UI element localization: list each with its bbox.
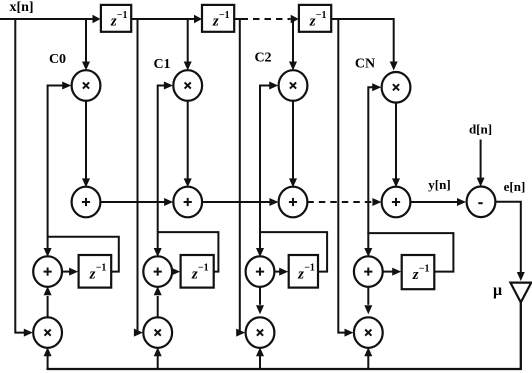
accumulator adder 2 (+) bbox=[246, 256, 275, 287]
multiplier bottom 1 (x) bbox=[143, 317, 172, 348]
svg-text:−1: −1 bbox=[117, 10, 128, 21]
wire y[n] adder N to subtractor bbox=[410, 198, 466, 206]
multiplier bottom 2 (x) bbox=[246, 317, 275, 348]
delay block z^-1 bottom N bbox=[402, 255, 435, 289]
svg-text:z: z bbox=[297, 266, 304, 282]
delay block z^-1 #2 bbox=[202, 5, 234, 32]
multiplier C1 (x) bbox=[173, 70, 202, 101]
amplifier mu (triangle) bbox=[510, 283, 531, 303]
wire mu output to bottom rail bbox=[47, 302, 521, 369]
wire delay3 output to multiplier CN bbox=[331, 19, 398, 71]
svg-text:−1: −1 bbox=[219, 10, 230, 21]
wire coefficient CN feed to multiplier bbox=[368, 83, 381, 233]
accumulator adder 0 (+) bbox=[33, 256, 62, 287]
svg-text:y[n]: y[n] bbox=[428, 177, 450, 192]
wire adder1 to adder2 bbox=[202, 198, 278, 206]
wire delayed signal drop to bottom multiplier 2 bbox=[236, 19, 245, 337]
adder N (+) bbox=[382, 187, 411, 218]
svg-text:−1: −1 bbox=[198, 263, 209, 274]
wire bottom multiplier 1 up into accumulator bbox=[154, 286, 162, 318]
svg-text:−1: −1 bbox=[316, 10, 327, 21]
wire feedback loop delay N to accumulator bbox=[364, 233, 453, 272]
svg-text:z: z bbox=[309, 13, 316, 29]
wire bottom multiplier 0 up into accumulator bbox=[44, 286, 52, 318]
svg-text:e[n]: e[n] bbox=[504, 179, 526, 194]
wire coefficient C1 feed to multiplier bbox=[158, 82, 173, 233]
svg-text:μ: μ bbox=[493, 282, 502, 299]
delay block z^-1 bottom 0 bbox=[79, 255, 112, 288]
adder 0 (+) bbox=[72, 187, 101, 218]
wire e[n] subtractor to mu amplifier bbox=[495, 202, 524, 281]
adder 1 (+) bbox=[173, 187, 202, 218]
wire accumulator 0 to delay bbox=[62, 268, 78, 276]
svg-text:CN: CN bbox=[355, 57, 375, 72]
wire product 2 to adder bbox=[289, 100, 297, 188]
accumulator adder 1 (+) bbox=[143, 256, 172, 287]
multiplier C0 (x) bbox=[72, 70, 101, 101]
wire x[n] input to first delay bbox=[0, 15, 101, 24]
wire feedback loop delay 2 to accumulator bbox=[256, 232, 327, 272]
wire mu-e feed up into bottom multiplier 0 bbox=[44, 347, 52, 369]
wire coefficient C2 feed to multiplier bbox=[260, 82, 278, 233]
svg-text:−1: −1 bbox=[96, 263, 107, 274]
wire tap 1 signal drop into multiplier C1 bbox=[184, 19, 192, 71]
delay block z^-1 #3 bbox=[299, 5, 331, 32]
wire feedback loop delay 1 to accumulator bbox=[154, 232, 219, 272]
delay block z^-1 bottom 2 bbox=[289, 255, 318, 288]
wire accumulator 2 down into bottom multiplier bbox=[256, 286, 264, 314]
adder 2 (+) bbox=[279, 187, 308, 218]
wire coefficient C0 feed to multiplier bbox=[48, 82, 72, 237]
wire accumulator 2 to delay bbox=[274, 268, 288, 276]
delay block z^-1 #1 bbox=[101, 5, 131, 32]
svg-text:z: z bbox=[191, 266, 198, 282]
wire delay2 output dashed to delay3 bbox=[234, 15, 299, 24]
multiplier bottom N (x) bbox=[354, 317, 383, 348]
wire product N to adder bbox=[392, 102, 400, 188]
wire accumulator N to delay bbox=[383, 268, 402, 276]
svg-text:z: z bbox=[212, 13, 219, 29]
wire delayed signal drop to bottom multiplier N bbox=[338, 19, 353, 337]
wire tap 2 signal drop into multiplier C2 bbox=[289, 19, 297, 71]
svg-text:d[n]: d[n] bbox=[469, 122, 492, 137]
svg-text:C0: C0 bbox=[49, 52, 66, 67]
wire adder2 dashed to adder N bbox=[307, 198, 381, 206]
wire mu-e feed up into bottom multiplier 2 bbox=[256, 347, 264, 369]
accumulator adder N (+) bbox=[354, 256, 383, 287]
multiplier C2 (x) bbox=[279, 70, 308, 101]
wire product 1 to adder bbox=[184, 100, 192, 188]
multiplier bottom 0 (x) bbox=[33, 317, 62, 348]
subtractor (-) bbox=[467, 187, 496, 218]
wire delayed signal drop to bottom multiplier 1 bbox=[134, 19, 143, 337]
wire mu-e feed up into bottom multiplier N bbox=[364, 347, 372, 369]
svg-text:z: z bbox=[89, 266, 96, 282]
svg-text:C1: C1 bbox=[153, 57, 170, 72]
wire d[n] into subtractor bbox=[477, 140, 485, 187]
svg-text:C2: C2 bbox=[254, 51, 271, 66]
wire tap 0 signal drop into multiplier C0 bbox=[82, 19, 90, 71]
wire feedback loop delay 0 to accumulator bbox=[44, 237, 119, 272]
svg-text:−1: −1 bbox=[419, 264, 430, 275]
multiplier CN (x) bbox=[382, 72, 411, 103]
wire delay1 output to delay2 bbox=[131, 15, 202, 24]
svg-text:−1: −1 bbox=[304, 263, 315, 274]
svg-text:z: z bbox=[412, 267, 419, 283]
delay block z^-1 bottom 1 bbox=[181, 255, 214, 288]
wire accumulator N down into bottom multiplier bbox=[364, 286, 372, 314]
wire adder0 to adder1 bbox=[100, 198, 173, 206]
wire mu-e feed up into bottom multiplier 1 bbox=[154, 347, 162, 369]
wire delayed signal drop to bottom multiplier 0 bbox=[15, 19, 33, 337]
wire accumulator 1 to delay bbox=[171, 268, 180, 276]
wire product 0 to adder bbox=[82, 100, 90, 188]
svg-text:x[n]: x[n] bbox=[9, 0, 33, 15]
